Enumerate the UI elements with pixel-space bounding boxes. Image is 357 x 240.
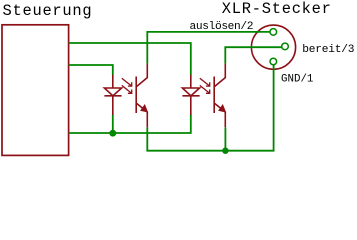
optocoupler OK2 LED2 [182, 75, 199, 115]
optocoupler OK1 LED1 [104, 75, 121, 115]
wire ausloesen Q1 collector to pin2 [147, 32, 270, 64]
svg-text:bereit/3: bereit/3 [302, 44, 354, 56]
wire LED1 cathode to net3 [112, 115, 114, 133]
junction dot GND [222, 148, 228, 154]
wire net2 box to LED1 anode [69, 65, 113, 75]
XLR pin 1 [270, 58, 277, 65]
optocoupler OK2 phototransistor Q2 [214, 64, 225, 128]
OK1 light arrow 1 [122, 78, 132, 86]
svg-text:GND/1: GND/1 [281, 74, 313, 86]
svg-text:Steuerung: Steuerung [3, 2, 93, 20]
wire net3 box to LED cathodes [69, 115, 191, 133]
svg-text:XLR-Stecker: XLR-Stecker [222, 0, 332, 18]
optocoupler OK1 phototransistor Q1 [136, 64, 147, 128]
XLR connector circle [251, 25, 295, 69]
wire GND emitter1 to pin1 [147, 65, 273, 151]
box Steuerung [2, 25, 69, 156]
wire bereit Q2 collector to pin3 [225, 47, 282, 63]
junction dot net3 [109, 130, 116, 137]
XLR pin 2 [270, 29, 277, 36]
wire emitter2 to GND [224, 127, 226, 150]
XLR pin 3 [282, 43, 289, 50]
wire net1 box to LED2 anode [69, 43, 191, 75]
OK1 light arrow 2 [122, 85, 132, 93]
OK2 light arrow 2 [200, 85, 210, 93]
OK2 light arrow 1 [200, 78, 210, 86]
